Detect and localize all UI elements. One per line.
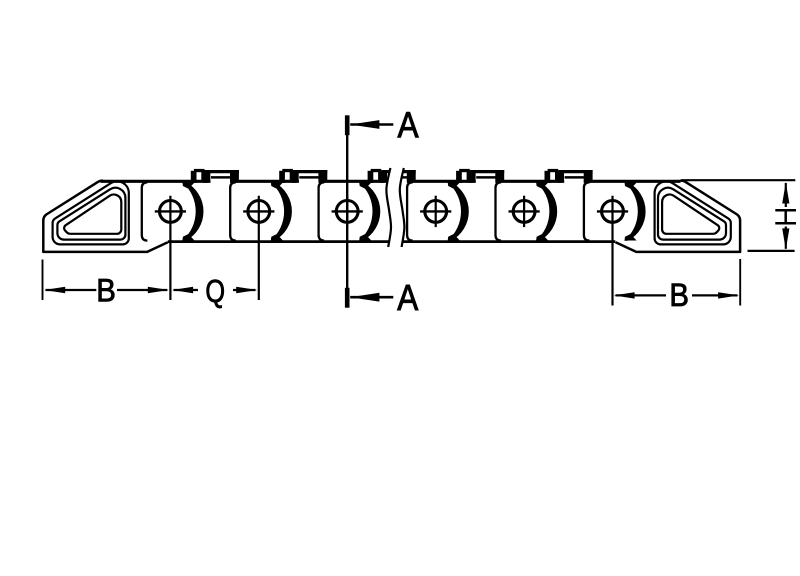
dimension B right line (616, 294, 738, 296)
H arrow up (782, 182, 789, 203)
link plate L4 nose arc (447, 182, 468, 241)
dimension Q arrow left (172, 287, 193, 293)
section tick top (345, 115, 350, 135)
wire chain top rail line (101, 180, 681, 183)
dimension Q line (174, 289, 256, 291)
link plate L6 left edge (584, 182, 590, 240)
snap tab cluster T3 (368, 169, 416, 183)
left end bracket (43, 181, 168, 252)
break line left (386, 168, 391, 247)
label B right (672, 284, 688, 306)
section line A-A vertical (346, 135, 348, 288)
snap tab cluster T2 (279, 169, 327, 183)
snap tab cluster T4 (456, 169, 504, 183)
section arrow top (350, 120, 393, 129)
snap tab cluster T5 (545, 169, 593, 183)
dimension B right arrow right (718, 292, 739, 298)
label B left (99, 279, 115, 301)
dimension Q arrow right (236, 287, 257, 293)
link plate L1 nose arc (182, 182, 203, 241)
link plate L3 left edge (319, 182, 325, 240)
link plate L2 nose arc (270, 182, 291, 241)
link plate L2 left edge (230, 182, 236, 240)
right end bracket (616, 181, 741, 252)
extension line right of bracket (739, 259, 741, 306)
section arrow bottom (350, 293, 393, 302)
snap tab cluster T1 (191, 169, 239, 183)
H bottom extension line (748, 250, 795, 252)
link plate L3 nose arc (359, 182, 380, 241)
label Q (207, 280, 224, 308)
pin P6 center-mark (597, 196, 628, 306)
label H rotated (775, 210, 796, 223)
link plate L1 left edge (142, 182, 148, 240)
link plate L4 left edge (407, 182, 413, 240)
pin P2 center-mark (243, 196, 274, 300)
link plate L5 left edge (496, 182, 502, 240)
H top extension line (681, 179, 795, 181)
H dimension line upper (785, 183, 787, 207)
label A top (398, 112, 419, 137)
break line right (400, 168, 405, 247)
dimension B right arrow left (614, 292, 635, 298)
pin P3 center-mark (332, 196, 363, 227)
break whiteout band (386, 168, 404, 247)
section tick bottom (345, 288, 350, 308)
H arrow down (782, 228, 789, 249)
pin P4 center-mark (420, 196, 451, 227)
label A bottom (397, 285, 418, 310)
wire chain bottom rail line (168, 240, 616, 243)
dimension B left line (46, 289, 168, 291)
pin P5 center-mark (509, 196, 540, 227)
dimension B left arrow left (44, 287, 65, 293)
link plate L5 nose arc (536, 182, 557, 241)
link plate L6 nose arc (624, 182, 645, 241)
pin P1 center-mark (155, 196, 186, 300)
extension line left of bracket (42, 260, 44, 301)
dimension B left arrow right (148, 287, 169, 293)
H dimension line lower (785, 227, 787, 249)
